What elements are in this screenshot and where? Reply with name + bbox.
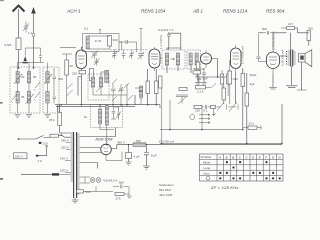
resistor 2M vertical bbox=[146, 81, 150, 94]
dashed box bandfilter 2 bbox=[43, 67, 59, 113]
wire fuse to trafo bbox=[59, 133, 71, 137]
wire osc net bbox=[93, 71, 111, 96]
svg-text:Schalter: Schalter bbox=[201, 155, 212, 159]
wire input coils bbox=[18, 63, 45, 114]
fuse 1A bbox=[36, 155, 39, 157]
dots mittel bbox=[226, 161, 228, 163]
coil IFT2b bbox=[195, 53, 198, 65]
dashed coil assembly top bbox=[110, 49, 148, 51]
resistor 500 bottom bbox=[77, 190, 84, 193]
edge artifact left bbox=[0, 102, 3, 104]
mains bottom line bbox=[21, 173, 52, 175]
speaker magnet bbox=[300, 56, 303, 60]
wire ab1 area bbox=[224, 60, 230, 104]
dashed box netz filter bbox=[91, 105, 123, 128]
lamp 1 bbox=[90, 178, 95, 183]
wire antenna down bbox=[18, 50, 20, 69]
tube RENS1214 envelope bbox=[231, 48, 242, 69]
tube RENS1254 envelope bbox=[149, 49, 160, 68]
capacitor res964 grid bbox=[256, 34, 266, 62]
wire b lines bbox=[236, 68, 247, 144]
ground bf2 bbox=[45, 115, 51, 118]
svg-text:F: F bbox=[265, 155, 267, 159]
capacitor 8uF symbol bbox=[113, 185, 129, 189]
table frame bbox=[200, 154, 284, 181]
wire IFT links bbox=[160, 48, 197, 77]
switch osc bbox=[96, 79, 133, 101]
switch S2 bbox=[34, 82, 40, 101]
rectifier tube RGN1064 bbox=[101, 144, 112, 155]
svg-text:ACH 1: ACH 1 bbox=[66, 9, 81, 14]
wire lamps bbox=[80, 177, 91, 183]
svg-text:210: 210 bbox=[43, 142, 48, 146]
trimmer c bbox=[129, 50, 134, 59]
trimmer a bbox=[112, 50, 117, 59]
tube ACH1 electrodes bbox=[78, 47, 85, 72]
speaker bbox=[299, 50, 312, 67]
svg-text:1 A: 1 A bbox=[28, 31, 32, 35]
resistor ab1 grid2 bbox=[222, 88, 226, 100]
svg-text:100 V: 100 V bbox=[60, 169, 68, 173]
capacitor osc top bbox=[94, 58, 100, 66]
svg-text:220 V: 220 V bbox=[61, 146, 69, 150]
tube RES964 electrodes bbox=[269, 48, 277, 74]
tube RENS1254 electrodes bbox=[151, 47, 158, 71]
coil osc1 bbox=[91, 77, 94, 87]
dashed box osc coil bbox=[88, 74, 109, 100]
capacitor 500 symbol bbox=[263, 31, 273, 35]
svg-text:22 k: 22 k bbox=[249, 122, 255, 126]
svg-text:RENS 1254: RENS 1254 bbox=[141, 9, 166, 14]
svg-text:60: 60 bbox=[70, 64, 74, 68]
svg-text:30µF: 30µF bbox=[250, 73, 257, 77]
svg-text:Mittel: Mittel bbox=[203, 161, 211, 165]
resistor tone2 bbox=[211, 105, 216, 108]
resistor grid chain ACH1 bbox=[65, 60, 69, 75]
dots bell bbox=[219, 177, 221, 179]
capacitor padder2 bbox=[119, 84, 124, 95]
capacitor netz2 arrow bbox=[116, 107, 121, 120]
svg-text:Lang: Lang bbox=[204, 166, 211, 170]
transformer primary ticks bbox=[71, 133, 74, 181]
capacitor netz1 bbox=[111, 107, 116, 119]
svg-text:8µF: 8µF bbox=[203, 77, 208, 81]
thermal 210 bbox=[39, 142, 42, 144]
ground input2 bbox=[26, 115, 32, 118]
lamp 2 bbox=[96, 178, 101, 183]
svg-text:B: B bbox=[226, 155, 228, 159]
svg-text:ZF = 128 KHz: ZF = 128 KHz bbox=[210, 185, 239, 190]
resistor box R osc bbox=[90, 69, 94, 81]
B plus rail bbox=[55, 105, 160, 107]
tap wires bbox=[65, 143, 71, 173]
heater wires right bbox=[80, 128, 116, 169]
switch S1 bbox=[11, 94, 17, 103]
coil osc2 bbox=[99, 77, 102, 87]
wire det out bbox=[195, 59, 230, 78]
svg-text:17 V 80 mA: 17 V 80 mA bbox=[159, 140, 175, 144]
svg-text:8µF: 8µF bbox=[119, 181, 124, 185]
bus 129 bbox=[160, 129, 243, 131]
dashed box IFT2 bbox=[187, 50, 201, 69]
wire antenna bus bbox=[25, 48, 42, 63]
wire cap4 bbox=[126, 145, 132, 165]
detector parts bbox=[196, 62, 200, 73]
svg-text:360: 360 bbox=[113, 38, 118, 42]
resistor 300 bbox=[307, 31, 311, 41]
svg-text:1,5M: 1,5M bbox=[231, 77, 238, 81]
svg-text:4 µF: 4 µF bbox=[134, 155, 140, 159]
resistor 0,5M bbox=[5, 38, 22, 50]
arrow IFT1 bbox=[171, 58, 175, 60]
svg-text:RENS 1214: RENS 1214 bbox=[223, 9, 248, 14]
svg-text:2M: 2M bbox=[139, 89, 144, 93]
wire plug to trafo bbox=[59, 173, 71, 175]
wave symbol bbox=[190, 115, 195, 120]
svg-text:2,28 V/8 mA: 2,28 V/8 mA bbox=[281, 49, 285, 66]
arrow coil L5 bbox=[44, 74, 52, 84]
svg-text:217: 217 bbox=[288, 22, 293, 26]
tube RES964 envelope bbox=[267, 52, 280, 69]
svg-text:500: 500 bbox=[86, 190, 91, 194]
wire screen feeds bbox=[148, 69, 157, 105]
switch mains bbox=[19, 136, 51, 140]
resistor 275 bbox=[115, 193, 124, 196]
ground det bbox=[195, 73, 207, 86]
svg-text:0,5M: 0,5M bbox=[5, 43, 12, 47]
resistor left avc bbox=[159, 76, 162, 88]
svg-text:275: 275 bbox=[116, 197, 121, 201]
svg-text:1 A: 1 A bbox=[38, 159, 42, 163]
wire ACH1 cathode down bbox=[78, 69, 81, 105]
svg-text:0,1: 0,1 bbox=[204, 109, 209, 113]
capacitor trimmer bf2 bbox=[53, 72, 57, 104]
resistor 22k bbox=[248, 126, 257, 129]
wire osc bottom bbox=[111, 84, 141, 105]
svg-text:~: ~ bbox=[9, 155, 11, 159]
tube ACH1 envelope bbox=[76, 50, 87, 69]
resistor 2,1k bbox=[179, 88, 187, 91]
resistor 5k vertical bbox=[155, 81, 159, 94]
coil L4 bbox=[27, 92, 30, 104]
resistor 5000 vertical bbox=[245, 93, 249, 106]
svg-text:4µF: 4µF bbox=[250, 82, 255, 86]
antenna A1 bbox=[13, 6, 25, 39]
bus 143 bbox=[160, 143, 282, 145]
arrow coil L3 bbox=[26, 94, 34, 104]
wire top right net bbox=[258, 28, 309, 50]
wire grid drop bbox=[133, 29, 143, 53]
wire res964 plate bbox=[269, 56, 288, 89]
wire right vertical bbox=[281, 104, 283, 144]
resistor 200 under ACH1 bbox=[79, 71, 86, 74]
output transformer core bbox=[291, 50, 293, 67]
wire speaker down bbox=[286, 62, 307, 90]
trimmer b bbox=[122, 50, 126, 59]
output transformer primary ticks bbox=[288, 51, 291, 65]
wire rail feeders bbox=[58, 95, 161, 112]
arrow row 1 bbox=[199, 114, 210, 120]
resistor 700 bbox=[193, 71, 201, 74]
pot tone arrow 2 bbox=[227, 103, 239, 112]
svg-text:1,1 V/2mA: 1,1 V/2mA bbox=[159, 35, 163, 49]
wire mains bbox=[39, 146, 48, 156]
capacitor tone bbox=[202, 105, 211, 109]
transformer secondary ticks bbox=[77, 134, 80, 194]
ground transformer bbox=[72, 198, 79, 203]
mains box 220V bbox=[9, 153, 28, 159]
svg-text:50: 50 bbox=[33, 75, 37, 79]
wire cath bbox=[206, 70, 229, 96]
svg-text:RES 964: RES 964 bbox=[266, 9, 285, 14]
wire rgn heater bbox=[80, 148, 101, 153]
variable capacitor osc bbox=[91, 51, 98, 60]
fuse Si box bbox=[50, 134, 59, 137]
switch antenna contact bbox=[23, 48, 28, 63]
trimmer grid bbox=[138, 52, 144, 60]
svg-text:780: 780 bbox=[136, 139, 141, 143]
svg-text:25: 25 bbox=[21, 95, 25, 99]
svg-text:380 V: 380 V bbox=[117, 141, 125, 145]
tube AB1 envelope bbox=[201, 53, 212, 64]
capacitor antenna trimmer bbox=[23, 22, 32, 36]
svg-text:0,1: 0,1 bbox=[84, 27, 89, 31]
wire bf2 bbox=[48, 63, 55, 114]
svg-text:B: B bbox=[232, 155, 234, 159]
resistor 360 bbox=[108, 36, 112, 47]
svg-text:700: 700 bbox=[194, 67, 199, 71]
svg-text:17 M: 17 M bbox=[95, 39, 102, 43]
capacitor det bbox=[202, 68, 206, 79]
capacitor 4uF bbox=[126, 153, 132, 159]
lamp 1 cross bbox=[91, 178, 94, 181]
svg-text:30: 30 bbox=[21, 75, 25, 79]
resistor 2,1k avc bbox=[196, 86, 206, 89]
edge artifact left2 bbox=[0, 178, 3, 180]
resistor 217 bbox=[287, 27, 295, 30]
svg-text:200: 200 bbox=[72, 72, 77, 76]
svg-text:25 k: 25 k bbox=[49, 118, 55, 122]
svg-text:240 V: 240 V bbox=[61, 139, 69, 143]
wire rgn output bbox=[107, 141, 117, 149]
svg-text:Telefunken: Telefunken bbox=[159, 183, 174, 187]
coil IFT1b bbox=[176, 53, 179, 65]
resistor 25k bbox=[58, 113, 62, 126]
volume pot bbox=[176, 95, 188, 104]
wire grid chain bbox=[62, 54, 73, 105]
svg-text:Kurz: Kurz bbox=[204, 171, 211, 175]
coil L1 bbox=[16, 72, 19, 84]
coil wavetrap bbox=[86, 36, 89, 49]
mains plug blob bbox=[52, 173, 59, 175]
dots lang bbox=[232, 166, 234, 168]
wire feedback loop bbox=[169, 33, 181, 50]
resistor ab1 grid bbox=[228, 71, 232, 84]
arrow row 2 bbox=[199, 122, 210, 124]
edge artifact top bbox=[0, 0, 4, 1]
coil L2 bbox=[16, 92, 19, 104]
rectifier electrodes bbox=[104, 147, 109, 152]
coil osc3 bbox=[105, 71, 109, 83]
resistor osc hatched bbox=[140, 86, 143, 98]
capacitor 8uF avc bbox=[197, 76, 201, 83]
svg-text:4,5/4/3,5 A: 4,5/4/3,5 A bbox=[103, 179, 117, 183]
svg-text:140 V: 140 V bbox=[60, 157, 68, 161]
choke 1 bbox=[98, 109, 101, 124]
antenna A2 bbox=[31, 7, 36, 68]
svg-text:Jahr 1935: Jahr 1935 bbox=[159, 193, 173, 197]
box wavetrap bbox=[83, 34, 120, 52]
dashed box IFT1 bbox=[162, 50, 185, 69]
pot tone arrow bbox=[217, 103, 225, 111]
svg-text:2,78+0,58 mA: 2,78+0,58 mA bbox=[272, 31, 276, 50]
wire rgn loop bbox=[106, 152, 122, 161]
dots kurz bbox=[219, 172, 221, 174]
wire res964 plate feed bbox=[272, 33, 274, 48]
wire 500b bbox=[84, 187, 114, 192]
wire trap links bbox=[88, 30, 133, 50]
coil L5 bbox=[46, 72, 49, 84]
coil IFT2a bbox=[189, 53, 192, 65]
power transformer core bbox=[74, 132, 77, 198]
svg-text:500: 500 bbox=[262, 27, 267, 31]
wire ACH1 top bbox=[60, 48, 83, 51]
table switch positions bbox=[200, 154, 284, 181]
resistor cath1 bbox=[221, 74, 224, 84]
svg-text:8+: 8+ bbox=[84, 115, 88, 119]
coil L3 bbox=[27, 72, 30, 84]
resistor 1,5M vertical bbox=[241, 74, 245, 87]
svg-text:RGN 1064: RGN 1064 bbox=[96, 138, 113, 142]
resistor 150 bbox=[194, 105, 202, 108]
tone junction bbox=[212, 109, 216, 117]
output transformer primary dots bbox=[286, 52, 287, 65]
tone drops bbox=[162, 88, 202, 144]
svg-text:A: A bbox=[218, 155, 221, 159]
wire box to assembly bbox=[119, 42, 122, 50]
dot switch bbox=[18, 138, 20, 140]
coil L6 bbox=[46, 92, 49, 104]
tube RENS1214 electrodes bbox=[233, 45, 240, 73]
wire 22k bbox=[243, 126, 262, 130]
svg-text:2,1 k: 2,1 k bbox=[197, 90, 204, 94]
dropper resistor in B line bbox=[133, 143, 146, 147]
output transformer secondary ticks bbox=[293, 52, 296, 64]
wire 25k down bbox=[60, 105, 71, 133]
tube AB1 electrodes bbox=[204, 50, 209, 68]
wire netz bbox=[100, 105, 119, 141]
capacitor 8uF B line bbox=[143, 146, 150, 169]
svg-text:8 µF: 8 µF bbox=[151, 154, 157, 158]
svg-text:AB 1: AB 1 bbox=[192, 9, 203, 14]
svg-text:300: 300 bbox=[58, 77, 63, 81]
svg-text:150: 150 bbox=[195, 109, 200, 113]
wire 275 bbox=[124, 187, 132, 198]
resistor cath2 bbox=[227, 74, 230, 84]
ground input bbox=[15, 113, 21, 118]
svg-text:300: 300 bbox=[308, 27, 313, 31]
svg-text:220 V: 220 V bbox=[15, 155, 23, 159]
capacitor padder bbox=[111, 84, 116, 95]
arrow coil L1 bbox=[14, 74, 22, 84]
svg-text:1,7 V/180 mA: 1,7 V/180 mA bbox=[241, 46, 245, 64]
svg-text:0,1µF/2 = A: 0,1µF/2 = A bbox=[158, 28, 174, 32]
dashed box input bandfilter bbox=[10, 67, 40, 113]
svg-text:964 WLK: 964 WLK bbox=[159, 188, 171, 192]
capacitor feedback bbox=[167, 32, 171, 36]
B main line bbox=[117, 144, 282, 146]
choke 2 bbox=[105, 106, 108, 126]
coil IFT1a bbox=[165, 53, 168, 65]
lamp 2 cross bbox=[97, 178, 100, 181]
